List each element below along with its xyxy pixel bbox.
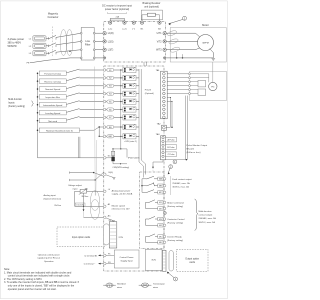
svg-text:Inverter Ready: Inverter Ready xyxy=(167,235,182,238)
terminal AC xyxy=(104,216,107,219)
opto-coupler input BB1 xyxy=(123,134,136,139)
output option cards box xyxy=(177,249,209,271)
wire pot to +V terminal xyxy=(87,190,104,192)
terminal SC xyxy=(104,157,107,160)
terminal P1 rescue xyxy=(104,254,107,257)
svg-text:(+2): (+2) xyxy=(123,28,127,30)
output option connector strip xyxy=(163,250,167,271)
wire opto S5 to bus xyxy=(136,101,139,103)
svg-text:L3(T): L3(T) xyxy=(108,50,114,52)
terminal S4 xyxy=(103,92,106,95)
drive terminal U/T1 xyxy=(163,32,166,35)
filter terminal right xyxy=(93,32,95,34)
drive terminal L2(S) xyxy=(103,40,106,43)
wire common to SC xyxy=(38,157,104,159)
svg-text:Control Power: Control Power xyxy=(120,256,134,259)
connector 2CN xyxy=(109,222,117,248)
svg-text:Fault contact output: Fault contact output xyxy=(172,178,192,181)
wire drive ground to motor ground xyxy=(166,57,213,59)
baseblock branch bus xyxy=(80,127,100,130)
wire opto BB1 to bus xyxy=(136,135,139,137)
connector 3CN box xyxy=(145,249,162,270)
svg-text:Contactor Control: Contactor Control xyxy=(167,218,185,221)
legend twisted-pair wires symbol xyxy=(139,284,152,286)
svg-text:Shielded: Shielded xyxy=(117,284,126,286)
svg-text:L1(R): L1(R) xyxy=(108,33,114,35)
filter terminal right xyxy=(93,49,95,51)
svg-text:(Factory setting): (Factory setting) xyxy=(167,239,183,242)
wire L2 fuse to contactor xyxy=(46,45,49,47)
TA1 terminal xyxy=(163,96,166,99)
svg-text:Voltage adjust: Voltage adjust xyxy=(68,184,82,187)
terminal MC xyxy=(163,191,166,194)
terminal (+1) xyxy=(109,21,112,24)
drive ground terminal right xyxy=(163,57,166,60)
wire L3 fuse to contactor xyxy=(46,52,49,54)
page frame xyxy=(0,1,227,299)
svg-text:50/60Hz: 50/60Hz xyxy=(8,45,18,48)
terminal S6 xyxy=(103,108,106,111)
terminal S2 xyxy=(103,77,106,80)
common bus down to SC line xyxy=(77,137,79,158)
braking resistor element xyxy=(147,13,155,16)
TA3 terminal xyxy=(162,137,164,139)
TA3 terminal xyxy=(162,144,164,146)
svg-text:Multi-function: Multi-function xyxy=(199,210,213,213)
svg-text:Twisted-pair: Twisted-pair xyxy=(153,283,165,286)
potentiometer speed pot xyxy=(80,189,87,193)
note marker 1 bottom xyxy=(174,277,178,281)
control circuit board box xyxy=(104,66,164,271)
svg-text:250VAC, max. 1A: 250VAC, max. 1A xyxy=(172,182,190,185)
svg-text:wires: wires xyxy=(117,286,123,289)
wire opto S4 to bus xyxy=(136,93,139,95)
TA1 terminal xyxy=(163,116,166,119)
input label hardware baseblock xyxy=(37,129,39,131)
terminal (&#8722;) xyxy=(132,21,135,24)
wire L2 filter to drive terminal xyxy=(94,40,104,42)
svg-text:Not used: Not used xyxy=(48,120,58,123)
svg-text:CN5(NPN setting): CN5(NPN setting) xyxy=(112,166,129,169)
svg-text:(Speed reference): (Speed reference) xyxy=(44,197,62,200)
pulse output labels xyxy=(166,137,177,142)
terminal S1 xyxy=(103,69,106,72)
wire V/T2 to motor xyxy=(166,40,198,43)
relay output section box xyxy=(140,172,164,249)
svg-text:AC: AC xyxy=(108,214,111,217)
svg-text:(100m or less): (100m or less) xyxy=(187,151,201,154)
svg-text:+24V (note 2): +24V (note 2) xyxy=(124,140,137,143)
drive terminal V/T2 xyxy=(163,40,166,43)
wire L1 fuse to contactor xyxy=(46,37,49,39)
TA3 terminal xyxy=(162,140,164,142)
terminal MB xyxy=(163,184,166,187)
svg-text:Contactor: Contactor xyxy=(47,15,58,19)
filter terminal left xyxy=(80,41,82,43)
twisted input wires symbol xyxy=(60,30,67,56)
monitor tap wires down xyxy=(185,96,187,160)
svg-text:Analog input power: Analog input power xyxy=(112,190,131,193)
wire opto S1 to bus xyxy=(136,69,139,71)
svg-text:Hardware Baseblock (note 3): Hardware Baseblock (note 3) xyxy=(46,129,73,132)
relay contact MB xyxy=(142,185,147,187)
wire opto S7 to bus xyxy=(136,116,139,118)
motor M1 xyxy=(198,35,214,51)
terminal N1 rescue xyxy=(104,262,107,265)
svg-text:input: input xyxy=(73,187,78,190)
svg-text:to terminal −: to terminal − xyxy=(84,263,96,266)
svg-text:Operation: Operation xyxy=(44,260,54,263)
external shield rows xyxy=(69,172,71,174)
fault relay common bus xyxy=(141,179,143,193)
DC reactor bracket xyxy=(108,12,127,13)
terminal B2 xyxy=(158,21,161,24)
relay contact M3 M4 Contactor Control xyxy=(145,219,147,225)
opto-coupler input S4 xyxy=(123,91,136,96)
contactor linkage dashed line xyxy=(51,27,53,58)
motor cable shield loops xyxy=(167,30,177,37)
wire U/T1 to motor xyxy=(166,33,200,37)
TA1 terminal xyxy=(163,76,166,79)
TA1 terminal xyxy=(163,73,166,76)
svg-text:E(G): E(G) xyxy=(109,172,114,174)
terminal B1 xyxy=(140,21,143,24)
svg-text:(+1): (+1) xyxy=(108,28,112,30)
svg-text:to terminal B1: to terminal B1 xyxy=(84,254,98,257)
TA3 terminal xyxy=(162,151,164,153)
filter terminal right xyxy=(93,41,95,43)
note marker arrow to relay box xyxy=(168,169,170,174)
label fault contact output xyxy=(170,176,172,195)
opto-coupler input S6 xyxy=(123,107,136,112)
svg-text:SC: SC xyxy=(108,155,111,157)
svg-text:supply input for Rescue: supply input for Rescue xyxy=(37,257,61,260)
note marker 2 relay xyxy=(163,212,166,215)
svg-text:Output option: Output option xyxy=(185,258,200,261)
opto-coupler input BB xyxy=(123,124,136,129)
relay contact MC xyxy=(142,191,147,193)
svg-text:2kOhm: 2kOhm xyxy=(54,205,61,207)
svg-text:reference 0 to 10V: reference 0 to 10V xyxy=(112,208,131,211)
encoder connector block upper xyxy=(198,81,206,87)
svg-text:power factor (optional): power factor (optional) xyxy=(105,8,129,11)
svg-text:Inspection Run: Inspection Run xyxy=(45,96,60,99)
terminal E(G) xyxy=(104,173,107,176)
wire L2 contactor to line filter xyxy=(56,41,81,44)
input option connector xyxy=(104,224,110,245)
shield drain lines xyxy=(93,67,96,196)
wire opto S2 to bus xyxy=(136,77,139,79)
svg-text:Filter: Filter xyxy=(85,43,91,46)
svg-text:B Pulse: B Pulse xyxy=(167,147,175,149)
wire L1 filter to drive terminal xyxy=(94,32,104,34)
wire BB1 xyxy=(99,135,103,137)
contactor pole L1 xyxy=(49,35,57,38)
wire L3 filter to drive terminal xyxy=(94,49,104,51)
terminal +V xyxy=(104,190,107,193)
analog cable shield loops xyxy=(91,191,100,211)
TA1 terminal xyxy=(163,112,166,115)
terminal M4 xyxy=(163,224,166,227)
PG card TA3 pulse strip xyxy=(161,136,166,160)
svg-text:L2(S): L2(S) xyxy=(108,41,114,43)
svg-text:Nominal Speed: Nominal Speed xyxy=(45,89,61,91)
wire opto S6 to bus xyxy=(136,109,139,111)
svg-text:contact output: contact output xyxy=(199,214,213,217)
input common bus xyxy=(37,73,39,158)
pulse tap wires to TA2 xyxy=(167,97,170,99)
svg-text:PG: PG xyxy=(211,87,214,89)
TA1 terminal xyxy=(163,84,166,87)
TA1 terminal xyxy=(163,80,166,83)
motor enclosure box xyxy=(170,28,226,63)
line filter box xyxy=(81,28,94,61)
terminal A1 xyxy=(104,205,107,208)
svg-text:Master speed: Master speed xyxy=(112,204,126,207)
opto-coupler input S1 xyxy=(123,67,136,72)
svg-text:(Factory setting): (Factory setting) xyxy=(8,105,25,108)
encoder shaft link xyxy=(212,62,214,82)
legend shielded wires symbol xyxy=(103,284,116,286)
terminal M3 xyxy=(163,218,166,221)
TA1 terminal xyxy=(163,92,166,95)
input switch S2 Reverse run/stop xyxy=(37,80,39,82)
wire PE to line filter and drive ground xyxy=(30,58,81,63)
svg-text:IM/PM: IM/PM xyxy=(202,43,208,45)
opto-coupler input S2 xyxy=(123,75,136,80)
opto-coupler input S5 xyxy=(123,99,136,104)
svg-text:Input option cards: Input option cards xyxy=(72,236,91,239)
wire L1 contactor to line filter xyxy=(56,33,81,37)
svg-text:IP24V (24V): IP24V (24V) xyxy=(128,158,140,160)
output option connector stadium xyxy=(169,251,173,271)
terminal (+2) xyxy=(123,21,126,24)
svg-text:supply +10.5V, 20mA: supply +10.5V, 20mA xyxy=(112,193,133,196)
E(G) ground symbol xyxy=(106,175,113,177)
svg-text:Optional control power: Optional control power xyxy=(38,253,60,256)
filter terminal left xyxy=(80,32,82,34)
svg-text:380 to 480V: 380 to 480V xyxy=(8,42,22,45)
svg-text:V/T2: V/T2 xyxy=(157,41,163,43)
filter terminal left xyxy=(80,57,82,59)
terminal BB xyxy=(103,126,106,129)
label 0 to 10V xyxy=(75,203,85,206)
wire L3 contactor to line filter xyxy=(56,50,81,53)
svg-text:PG-X3: PG-X3 xyxy=(145,90,152,92)
encoder PG xyxy=(209,82,217,90)
input switch S3 Nominal Speed xyxy=(37,88,39,90)
terminal BB1 xyxy=(103,135,106,138)
svg-text:(−): (−) xyxy=(132,28,135,30)
opto-coupler input S3 xyxy=(123,83,136,88)
terminal S5 xyxy=(103,100,106,103)
wire to AC terminal xyxy=(84,216,104,218)
svg-text:Pulse Monitor Output: Pulse Monitor Output xyxy=(187,144,208,147)
svg-text:Analog input: Analog input xyxy=(44,194,57,197)
svg-text:3-phase power: 3-phase power xyxy=(8,38,25,41)
braking resistor unit box xyxy=(141,10,162,20)
jumper bar between +1 and +2 xyxy=(110,19,124,21)
PG card TA1 terminal strip xyxy=(161,71,168,119)
svg-text:250VAC, max. 1A: 250VAC, max. 1A xyxy=(199,217,217,220)
relay contact MA xyxy=(142,178,147,180)
terminal M6 xyxy=(163,241,166,244)
twist junction dot xyxy=(69,51,70,52)
TA1 terminal xyxy=(163,108,166,111)
terminal M2 xyxy=(163,207,166,210)
input switch S7 Not used xyxy=(37,120,39,122)
drive terminal W/T3 xyxy=(163,48,166,51)
svg-text:A Pulse: A Pulse xyxy=(167,139,175,142)
motor ground symbol xyxy=(210,49,214,58)
svg-text:Reverse run/stop: Reverse run/stop xyxy=(44,80,61,83)
contactor pole L2 xyxy=(49,43,57,46)
svg-text:3CN: 3CN xyxy=(151,260,156,262)
svg-text:cards: cards xyxy=(189,261,195,264)
relay contact M1 M2 Brake Command xyxy=(145,202,147,208)
drive power circuit box xyxy=(104,22,166,63)
svg-text:Supply Input: Supply Input xyxy=(121,259,134,262)
svg-text:30VDC, max. 1A: 30VDC, max. 1A xyxy=(199,221,216,224)
input switch S6 Leveling Speed xyxy=(37,112,39,114)
svg-text:2kOhm: 2kOhm xyxy=(82,196,89,198)
svg-text:Brake Command: Brake Command xyxy=(167,201,184,204)
TA1 terminal xyxy=(163,88,166,91)
TA3 terminal xyxy=(162,155,164,157)
input switch S5 Intermediate Speed xyxy=(37,104,39,106)
terminal M1 xyxy=(163,201,166,204)
terminal S3 xyxy=(103,85,106,88)
PG card TA2 terminal strip xyxy=(162,125,167,130)
TA1 terminal xyxy=(163,104,166,107)
svg-text:Inputs: Inputs xyxy=(8,101,15,104)
multi-function brace xyxy=(195,199,198,230)
svg-text:(Optional): (Optional) xyxy=(145,92,154,95)
drive terminal L3(T) xyxy=(103,48,106,51)
wire braking resistor to B1 xyxy=(141,20,143,21)
terminal MA xyxy=(163,178,166,181)
svg-text:BB1: BB1 xyxy=(109,136,113,138)
pot wiper arrow xyxy=(83,193,85,206)
svg-text:wires: wires xyxy=(153,286,159,289)
wire pot left leg xyxy=(75,190,81,192)
note marker 1 top xyxy=(183,16,187,20)
wire to A1 terminal xyxy=(75,205,104,207)
terminal M5 xyxy=(163,235,166,238)
svg-text:W/T3: W/T3 xyxy=(156,50,162,52)
svg-text:Forward run/stop: Forward run/stop xyxy=(44,72,61,75)
svg-text:(Factory setting): (Factory setting) xyxy=(167,205,183,208)
svg-text:Magnetic: Magnetic xyxy=(48,11,59,15)
svg-text:30VDC, max. 1A: 30VDC, max. 1A xyxy=(172,186,189,189)
wires rescue terminals to control power box xyxy=(106,254,114,256)
svg-text:Intermediate Speed: Intermediate Speed xyxy=(43,104,63,107)
svg-text:Motor: Motor xyxy=(202,23,209,27)
svg-text:(Factory setting): (Factory setting) xyxy=(167,221,183,224)
svg-text:MC: MC xyxy=(159,192,163,194)
control power supply input box xyxy=(114,250,139,268)
svg-text:Leveling Speed: Leveling Speed xyxy=(45,113,61,115)
input switch S4 Inspection Run xyxy=(37,96,39,98)
wire crossover to E(G) xyxy=(94,173,104,177)
relay contact M5 M6 Inverter Ready xyxy=(145,237,147,243)
TA3 shield wire xyxy=(153,160,163,167)
opto common bus +24V xyxy=(120,70,122,149)
TA1 terminal xyxy=(163,100,166,103)
svg-text:Multi-function: Multi-function xyxy=(8,98,22,101)
svg-text:unit (optional): unit (optional) xyxy=(144,6,159,9)
drive terminal L1(R) xyxy=(103,32,106,35)
filter terminal left xyxy=(80,49,82,51)
wire opto S3 to bus xyxy=(136,85,139,87)
opto-coupler input S7 xyxy=(123,115,136,120)
wire braking resistor to B2 xyxy=(159,20,161,21)
wire opto BB to bus xyxy=(136,126,139,128)
input switch S1 Forward run/stop xyxy=(37,72,39,74)
svg-text:2CN: 2CN xyxy=(119,237,124,239)
input option cards box xyxy=(57,227,105,247)
encoder connector block lower xyxy=(198,89,206,95)
CN5 jumper circuit xyxy=(106,157,111,159)
svg-text:RS-422: RS-422 xyxy=(187,148,195,150)
TA3 terminal xyxy=(162,148,164,150)
contactor pole L3 xyxy=(49,50,57,53)
filter terminal right xyxy=(93,57,95,59)
wire W/T3 to motor xyxy=(166,48,200,50)
wires TA1 to encoder xyxy=(167,73,188,75)
terminal S7 xyxy=(103,116,106,119)
wire BB xyxy=(99,126,103,128)
svg-text:operator panel and the inverte: operator panel and the inverter will not… xyxy=(8,288,57,291)
note marker 2 xyxy=(169,165,173,169)
wires power section to control board xyxy=(143,62,145,66)
svg-text:U/T1: U/T1 xyxy=(157,33,163,35)
opto output bus xyxy=(139,69,143,178)
svg-text:Z Pulse: Z Pulse xyxy=(167,154,175,156)
drive ground terminal left xyxy=(103,57,106,60)
encoder enclosure box xyxy=(190,72,227,101)
